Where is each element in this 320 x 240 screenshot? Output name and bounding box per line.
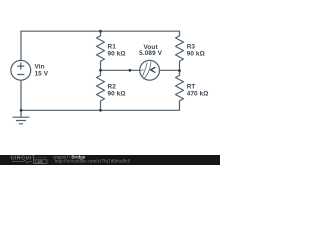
svg-text:R3: R3: [187, 44, 196, 51]
svg-text:R1: R1: [108, 44, 117, 51]
svg-text:R2: R2: [108, 83, 117, 90]
svg-text:470 kΩ: 470 kΩ: [187, 90, 209, 97]
svg-text:90 kΩ: 90 kΩ: [108, 51, 126, 58]
svg-text:90 kΩ: 90 kΩ: [187, 51, 205, 58]
svg-text:LAB: LAB: [35, 160, 43, 164]
svg-text:RT: RT: [187, 83, 196, 90]
svg-text:15 V: 15 V: [35, 71, 49, 78]
svg-text:5.089 V: 5.089 V: [139, 50, 162, 57]
svg-text:CIRCUIT: CIRCUIT: [11, 155, 36, 161]
svg-text:http://circuitlab.com/c/7fq7d9: http://circuitlab.com/c/7fq7d9hudfc5: [55, 158, 131, 163]
svg-text:Vin: Vin: [35, 63, 45, 70]
svg-text:90 kΩ: 90 kΩ: [108, 90, 126, 97]
